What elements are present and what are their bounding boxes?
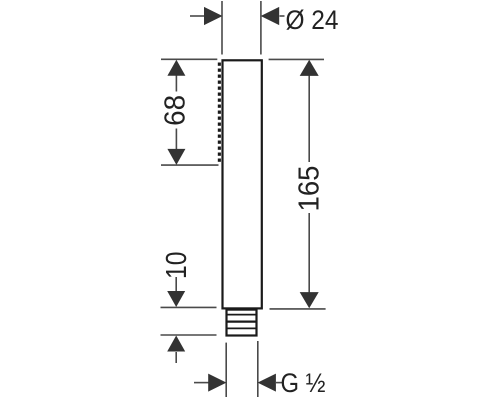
68 extension lines (161, 58, 217, 60)
10 dim line segments (175, 277, 177, 291)
svg-text:Ø 24: Ø 24 (286, 5, 339, 35)
G1/2 extension lines (225, 343, 227, 397)
diameter dim tails (190, 15, 205, 17)
svg-text:G ½: G ½ (281, 368, 326, 398)
diameter right arrow (points left) (261, 7, 280, 25)
165 top arrow (points up) (300, 60, 319, 76)
svg-text:165: 165 (294, 166, 326, 212)
165 dim line segments (308, 75, 310, 163)
68 top arrow (points up) (167, 60, 185, 76)
shower body cylinder (223, 60, 262, 308)
svg-text:68: 68 (160, 95, 192, 126)
arrows (167, 7, 319, 392)
diameter extension lines (221, 1, 223, 55)
165 bottom arrow (points down) (300, 292, 319, 308)
diameter left arrow (points right) (204, 7, 223, 25)
G1/2 right arrow (points left) (258, 374, 276, 392)
10 upper arrow (points down) (167, 291, 185, 307)
thread G1/2 (226, 310, 258, 336)
165 extension lines (269, 58, 324, 60)
svg-text:10: 10 (161, 251, 193, 279)
10 extension lines (161, 306, 217, 308)
G1/2 dim tails (194, 382, 209, 384)
dimension thin lines (161, 1, 326, 397)
spray nozzle dots (218, 63, 221, 162)
68 dim line segments (175, 75, 177, 92)
G1/2 left arrow (points right) (208, 374, 226, 392)
68 bottom arrow (points down) (167, 149, 185, 165)
10 lower arrow (points up) (167, 336, 185, 352)
